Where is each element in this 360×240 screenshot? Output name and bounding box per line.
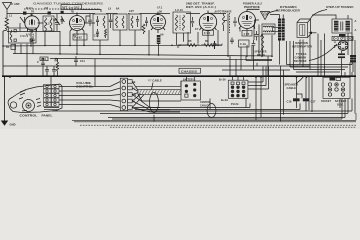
box vibrator unit: [9, 28, 37, 43]
label box F-10Z: [73, 34, 87, 40]
tube V5: [239, 9, 260, 30]
wire V1 to L2: [38, 20, 58, 23]
capacitor C9: [255, 31, 259, 41]
wire leader step-up: [311, 10, 328, 19]
inductor IF1 primary: [116, 16, 118, 28]
inductor IF1 secondary: [122, 16, 124, 28]
antenna: [3, 3, 12, 32]
interrupter box: [297, 19, 311, 38]
dashed shield line: [229, 13, 231, 33]
terminal row: [332, 37, 353, 41]
wire transformer top: [312, 15, 348, 19]
wire right bundle verticals: [340, 72, 355, 114]
wire speaker cable leader: [296, 77, 304, 84]
inductor L2a: [45, 18, 47, 31]
capacitor trimmer C5a: [61, 11, 64, 14]
wire resistor row: [178, 45, 222, 48]
capacitor C14: [339, 34, 346, 37]
wire label leader: [267, 11, 278, 15]
inductor IF1b coil: [131, 16, 133, 28]
capacitor C11: [213, 41, 217, 49]
plug connector: [228, 80, 248, 98]
wires plug verticals: [233, 66, 313, 121]
wire leader curve: [309, 44, 337, 61]
tube V4: [199, 11, 216, 34]
capacitor IF1b: [136, 16, 139, 27]
inductor L4: [10, 30, 12, 42]
capacitor padder: [96, 16, 99, 26]
grommet ellipse 2: [207, 104, 216, 118]
capacitor C5 trimmer: [61, 16, 65, 24]
capacitor C20: [37, 59, 45, 76]
resistor R3 box: [242, 31, 252, 37]
resistor R6: [201, 44, 217, 47]
tube V3: [151, 12, 166, 34]
voice coil bars: [270, 15, 285, 65]
capacitor C4 variable: [55, 15, 60, 31]
arrow to interrupter: [308, 32, 316, 35]
socket V6 rectifier: [334, 36, 348, 51]
capacitor C6: [88, 16, 92, 26]
box IF transformer 2: [173, 12, 191, 33]
wire bottom dashed: [80, 125, 356, 127]
box IF transformer 1: [113, 14, 127, 30]
capacitor C7: [191, 17, 194, 27]
control cable bundle: [132, 82, 181, 108]
scan noise: [0, 0, 1, 1]
transformer step-up: [332, 19, 352, 33]
wire cable drop: [154, 81, 246, 121]
resistor R7: [105, 29, 107, 38]
capacitor C4b: [145, 17, 148, 27]
inductor autotransformer: [223, 14, 227, 32]
chassis line: [2, 75, 356, 77]
connector strip: [120, 78, 136, 110]
wire bottom run 5 dark: [72, 113, 356, 122]
capacitor C12b above chassis: [52, 66, 56, 76]
wire mid lines: [222, 47, 290, 70]
capacitor tuning C2: [20, 17, 25, 31]
capacitor C12 above chassis: [45, 66, 49, 76]
capacitor C13 electrolytic: [157, 35, 161, 44]
resistor R1 box: [6, 45, 16, 50]
knob main: [23, 100, 35, 112]
wire top bus: [7, 14, 226, 17]
wire bottom run 4b: [112, 99, 342, 120]
inductor L3: [103, 16, 105, 28]
box oscillator coil: [93, 14, 108, 40]
wire pad fan down: [132, 95, 180, 113]
box IF transformer 1b: [129, 14, 141, 30]
label DET 1st OSC: [61, 5, 82, 10]
tube V1: [25, 14, 39, 34]
box L2 shield: [43, 16, 54, 31]
wire bus 2: [13, 54, 272, 57]
capacitor C16: [287, 77, 300, 108]
box C-16: [239, 40, 250, 47]
wire bottom run 3: [100, 99, 348, 114]
wire V2 plate: [85, 16, 96, 23]
inductor IF2 secondary: [183, 15, 185, 31]
wires panel to connector: [51, 59, 120, 108]
box L10: [273, 28, 283, 32]
resistor R5: [184, 44, 200, 47]
speaker cone: [261, 12, 270, 20]
capacitor C17: [297, 77, 317, 111]
tube V2: [70, 13, 85, 35]
wire left rail: [2, 31, 4, 76]
inductor speaker field: [262, 34, 264, 56]
junction dots: [2, 45, 307, 78]
wire ganged condenser dashed link: [24, 8, 100, 10]
knob small: [10, 102, 16, 108]
wire right rail: [318, 33, 355, 76]
capacitor C12: [96, 29, 99, 37]
wire speaker cable vertical: [287, 41, 294, 70]
inductor IF2 primary: [176, 15, 178, 31]
capacitor C15: [338, 51, 345, 61]
terminal grid: [44, 85, 60, 107]
label C10 box: [40, 57, 48, 61]
socket box: [323, 77, 350, 98]
wire drops below chassis: [256, 77, 261, 120]
wire speaker cable bundle: [287, 35, 353, 72]
wire bottom run 1: [135, 103, 300, 109]
output transformer T1: [255, 20, 276, 56]
capacitor C1 trimmer: [23, 12, 26, 15]
wire drops top band: [31, 14, 272, 76]
capacitor C11b: [74, 56, 85, 66]
label V4 box: [203, 30, 214, 35]
battery connector: [181, 77, 201, 100]
wire bus 3: [50, 59, 272, 60]
capacitor C19: [252, 40, 256, 49]
capacitor trimmer C3: [48, 12, 51, 15]
label CHASSIS box: [179, 68, 201, 73]
wire bus 1: [3, 44, 222, 47]
wire bus 4: [3, 65, 310, 67]
capacitor C15b: [230, 38, 234, 45]
wire vibrator drops: [7, 32, 60, 76]
wire bottom run 4: [108, 99, 345, 118]
control panel body: [8, 84, 62, 113]
capacitor C5c: [233, 17, 237, 27]
resistor R4: [56, 58, 58, 76]
resistor R1: [142, 24, 145, 34]
capacitor C18 electrolytic: [350, 55, 356, 62]
ground: [1, 77, 16, 127]
inductor L2b: [50, 18, 52, 31]
capacitor C8: [109, 14, 113, 28]
capacitor C10: [31, 36, 34, 44]
wire bottom run 2: [52, 99, 352, 112]
wire antenna lead: [11, 3, 13, 5]
grommet ellipse 1: [150, 93, 159, 113]
